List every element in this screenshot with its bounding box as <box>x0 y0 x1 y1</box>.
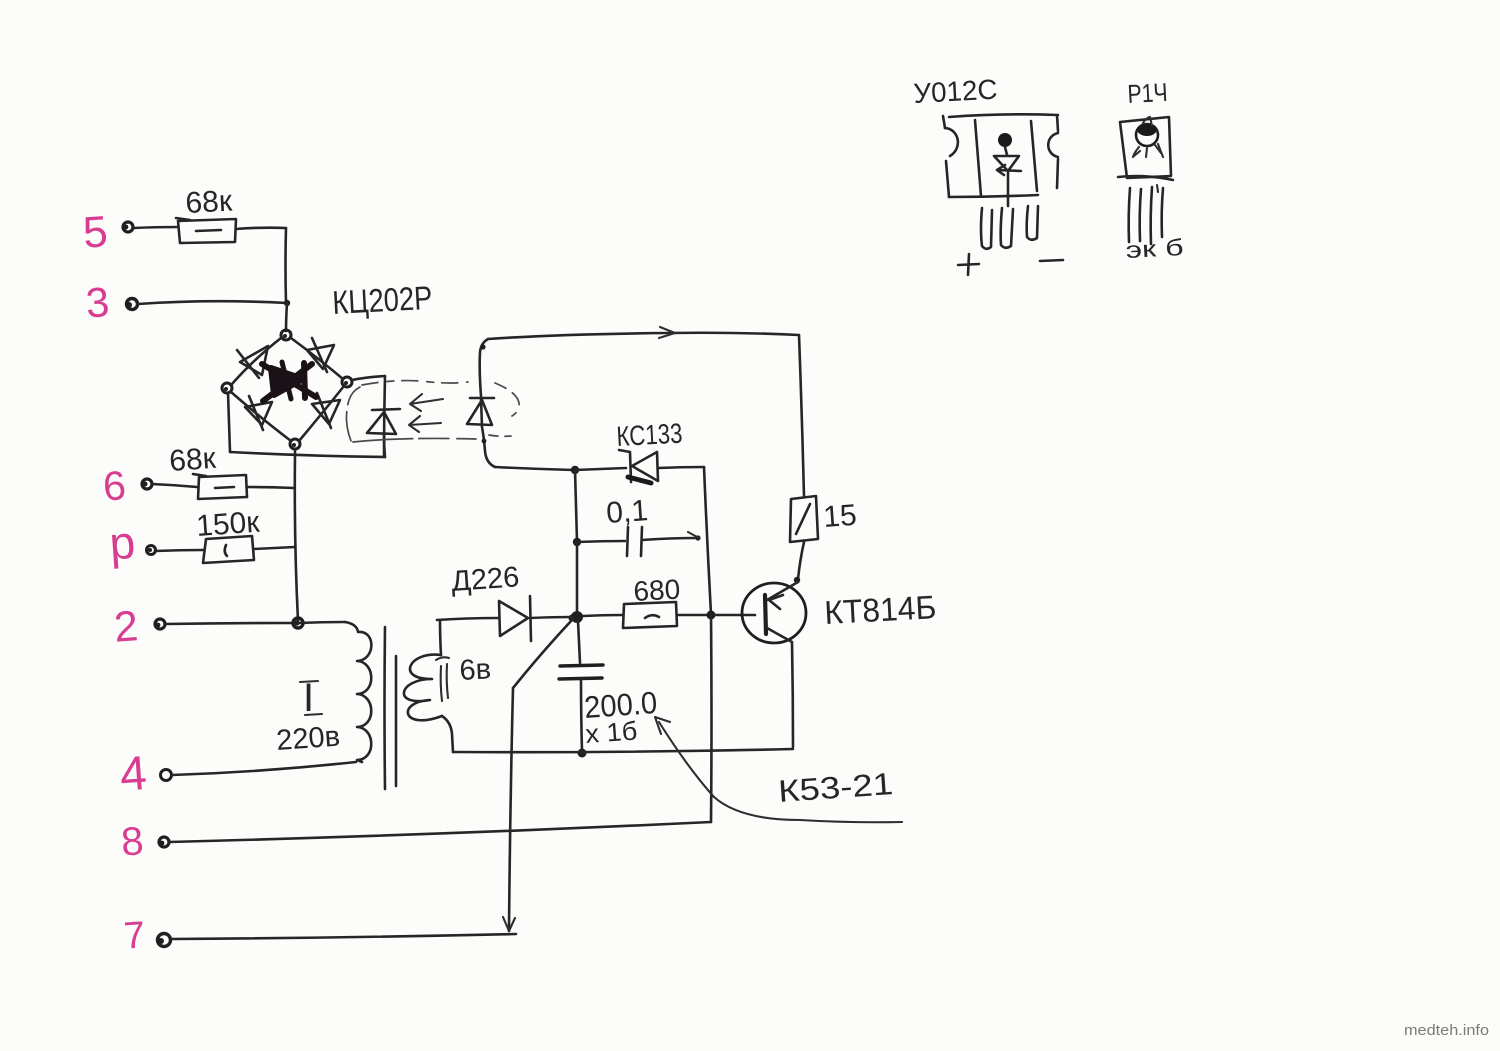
wire cap 0.1 to right vertical <box>642 538 697 540</box>
resistor R 150k <box>203 536 254 563</box>
node cap 0.1 left <box>573 538 581 546</box>
pin label 8 <box>120 819 145 864</box>
wire left vertical (zener node down to cap node) <box>575 470 577 541</box>
opto package pin 2 <box>1001 208 1013 248</box>
label KS133 <box>616 418 684 452</box>
wire secondary to D226 anode <box>437 618 498 620</box>
bridge diode top-left <box>237 346 268 378</box>
svg-text:КЦ202Р: КЦ202Р <box>331 279 433 321</box>
wire secondary bottom lead <box>442 716 453 752</box>
bridge side top-right <box>291 338 343 379</box>
resistor R 680 <box>623 602 677 628</box>
node pin2/transformer <box>293 618 303 628</box>
terminal pin 6 <box>142 479 152 489</box>
node pin3/bridge <box>284 300 290 306</box>
terminal pin 4 <box>161 770 172 781</box>
opto package body <box>943 114 1058 197</box>
svg-text:Д226: Д226 <box>450 561 520 598</box>
pin label 4 <box>118 747 148 802</box>
wire loop bottom (photodiode to zener node) <box>495 467 573 470</box>
wire node to cap 0.1 <box>577 541 625 542</box>
wire pinP to R3 <box>155 550 204 551</box>
wire vertical to pin7 with arrow <box>503 688 515 931</box>
bridge diode top-right <box>307 338 334 372</box>
wire R2 to vertical <box>247 487 294 488</box>
node photodiode bottom <box>482 439 487 444</box>
transistor package circle <box>1136 124 1158 146</box>
capacitor 200.0 lead bottom <box>581 679 582 751</box>
node emitter top <box>794 577 800 583</box>
opto package pin 1 <box>981 208 992 249</box>
wire base-node vertical down to pin8 <box>710 615 713 822</box>
label ekb <box>1125 234 1184 263</box>
opto package inner line right <box>1031 121 1037 191</box>
zener KS133 <box>619 450 658 483</box>
pin label 3 <box>84 278 111 327</box>
bridge side top-left <box>232 338 281 384</box>
svg-text:0,1: 0,1 <box>605 494 649 530</box>
plus mark <box>958 254 979 275</box>
wire vertical corner to node3 <box>284 228 287 303</box>
svg-text:КТ814Б: КТ814Б <box>823 588 937 631</box>
opto package pin 3 <box>1027 206 1038 240</box>
opto package diode <box>994 147 1021 206</box>
opto photodiode <box>467 398 494 425</box>
label KTs202R <box>331 279 433 321</box>
label 68k (pin6) <box>168 442 218 478</box>
wire node to zener <box>575 468 626 470</box>
svg-text:6в: 6в <box>459 653 492 687</box>
wire pin2 to node <box>165 623 296 624</box>
label 0,1 <box>605 494 649 530</box>
capacitor 0.1 plates <box>627 527 642 556</box>
bridge left node <box>222 383 232 393</box>
label P14 <box>1127 77 1169 109</box>
label 150k <box>195 506 261 543</box>
wire LED box bottom <box>230 452 385 457</box>
svg-text:х 1б: х 1б <box>584 715 638 749</box>
label 680 <box>633 574 681 607</box>
svg-text:3: 3 <box>84 278 111 327</box>
label KT814B <box>823 588 937 631</box>
wire node2 to primary top <box>298 622 345 623</box>
pin label 2 <box>112 602 139 652</box>
svg-text:8: 8 <box>120 819 145 864</box>
wire LED box right vertical top part <box>384 376 385 457</box>
terminal pin 8 <box>159 837 169 847</box>
opto package diode dot <box>998 133 1012 147</box>
svg-text:КС133: КС133 <box>616 418 684 452</box>
terminal pin 2 <box>155 619 165 629</box>
label D226 <box>450 561 520 598</box>
svg-text:68к: 68к <box>168 442 218 478</box>
pin label 7 <box>122 914 146 957</box>
label UO12S <box>913 74 999 109</box>
bridge right node <box>342 377 352 387</box>
wire zener to right corner <box>658 467 704 468</box>
wire loop top <box>488 333 799 339</box>
terminal pin 3 <box>126 299 138 310</box>
wire D226 cathode to node <box>530 617 571 618</box>
bridge diode bottom-right <box>312 393 340 428</box>
label 6v <box>459 653 492 687</box>
svg-text:220в: 220в <box>275 721 341 757</box>
svg-text:medteh.info: medteh.info <box>1404 1023 1489 1039</box>
transformer T1 secondary winding <box>404 655 442 721</box>
wire loop right vertical <box>799 335 804 496</box>
pin label 5 <box>81 207 109 258</box>
wire left vertical (cap node to diode node) <box>576 542 579 616</box>
node main (D226/cap/680) <box>569 611 584 623</box>
wire photodiode bottom lead to corner <box>481 398 495 467</box>
svg-text:68к: 68к <box>185 185 234 220</box>
bridge side bottom-left <box>231 392 291 441</box>
wire secondary top lead <box>440 621 441 655</box>
node bottom rail <box>578 749 587 758</box>
wire R3 to vertical <box>254 547 295 549</box>
resistor R 15 <box>790 496 818 542</box>
label 220v <box>275 721 341 757</box>
opto light arrows <box>409 394 443 432</box>
bridge bottom node <box>290 439 300 449</box>
pin label 6 <box>101 462 127 509</box>
wire pin3 to node <box>138 301 287 304</box>
wire vertical bridge-bottom to node2 <box>295 455 298 621</box>
wire pin5 to R1 <box>134 227 178 228</box>
arrow on top wire <box>659 327 675 338</box>
wire node3 to bridge top <box>286 303 287 331</box>
wire right vertical (corner to base node) <box>704 467 711 614</box>
minus mark <box>1040 260 1063 261</box>
svg-text:5: 5 <box>81 207 109 258</box>
svg-text:680: 680 <box>633 574 681 607</box>
svg-text:эк б: эк б <box>1125 234 1184 263</box>
svg-text:4: 4 <box>118 747 148 802</box>
bridge side bottom-right <box>299 386 344 441</box>
wire pin4 to transformer <box>172 762 356 775</box>
node zener-left <box>571 466 579 474</box>
transistor KT814B circle <box>742 583 806 643</box>
label K53-21 <box>777 766 894 809</box>
transistor base bar <box>765 595 766 634</box>
arrow end cap 0.1 <box>688 532 701 541</box>
transformer T1 primary winding <box>345 622 371 762</box>
opto LED (bridge side) <box>367 409 400 434</box>
transistor package bottom stroke <box>1118 176 1173 180</box>
wire bridge left node down <box>228 393 230 452</box>
label 15 <box>822 499 858 534</box>
resistor R 68k (pin5) <box>176 218 236 243</box>
label x16 <box>584 715 638 749</box>
capacitor 200.0 plates <box>559 665 603 679</box>
transistor collector <box>767 628 793 747</box>
label I (primary) <box>300 676 322 720</box>
wire pin8 to base node vertical <box>169 822 711 842</box>
opto package inner line left <box>975 120 981 196</box>
opto dashed envelope <box>346 381 519 442</box>
svg-text:7: 7 <box>122 914 146 957</box>
secondary II mark <box>436 657 449 701</box>
opto package right notch <box>1048 133 1058 157</box>
wire R1 to corner node <box>236 228 286 229</box>
wire LED box right vertical bottom part <box>384 435 385 457</box>
wire pin7 <box>171 934 516 939</box>
svg-text:Р1Ч: Р1Ч <box>1127 77 1169 109</box>
svg-text:6: 6 <box>101 462 127 509</box>
wire 680 to base node <box>677 614 708 617</box>
wire pin6 to R2 <box>152 484 197 487</box>
transformer core line 1 <box>383 627 386 789</box>
K53-21 pointer arrow <box>655 717 902 822</box>
wire bottom rail <box>453 749 793 752</box>
wire bridge right node to LED box top <box>352 376 385 380</box>
transistor package leads inside <box>1133 117 1163 157</box>
resistor R 68k (pin6) <box>193 474 247 499</box>
label 200.0 <box>583 685 658 725</box>
terminal pin 7 <box>158 934 171 947</box>
diode D226 <box>499 596 531 641</box>
bridge top node <box>281 330 291 340</box>
bridge centre scribbled diode <box>262 362 316 401</box>
svg-text:У012С: У012С <box>913 74 999 109</box>
transistor package pin lines <box>1129 185 1163 244</box>
terminal pin P <box>147 546 156 555</box>
wire R15 to emitter <box>798 542 804 579</box>
wire node to 680 <box>583 615 622 616</box>
transformer core line 2 <box>395 656 398 786</box>
node base <box>707 611 716 620</box>
wire photodiode top lead <box>480 339 488 396</box>
svg-text:2: 2 <box>112 602 139 652</box>
node top-left corner <box>480 344 485 349</box>
capacitor 200.0 lead top <box>578 621 580 663</box>
bridge diode bottom-left <box>245 396 272 430</box>
terminal pin 5 <box>123 222 133 232</box>
wire bridge bottom node down <box>294 449 297 455</box>
label 68k top <box>185 185 234 220</box>
transistor emitter with arrow <box>767 582 798 609</box>
wire base node to transistor <box>715 614 755 617</box>
svg-text:150к: 150к <box>195 506 261 543</box>
svg-text:15: 15 <box>822 499 858 534</box>
wire diagonal from main node <box>513 620 572 688</box>
svg-text:р: р <box>108 516 137 570</box>
transistor package body <box>1120 117 1171 178</box>
pin label P <box>108 516 137 570</box>
